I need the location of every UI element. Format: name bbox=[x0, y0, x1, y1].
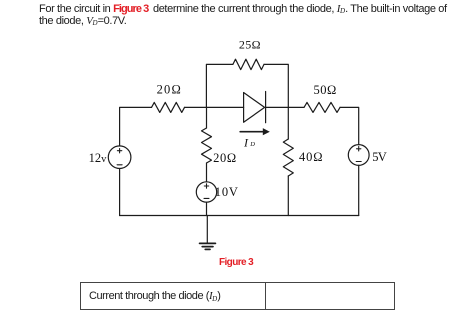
source 12V bbox=[108, 146, 131, 169]
resistor 40ohm bbox=[283, 139, 293, 176]
wire 12V bottom down bbox=[119, 169, 121, 216]
wire from 20ohm to diode anode through node A bbox=[185, 106, 244, 108]
wire 25ohm right down to node B bbox=[264, 64, 288, 107]
wire node A up to 25ohm branch left bbox=[206, 64, 233, 107]
current arrow ID bbox=[240, 128, 270, 135]
wire 50ohm right and down to 5V source bbox=[340, 107, 359, 144]
answer table bbox=[80, 282, 395, 310]
label 12V bbox=[89, 151, 108, 165]
figure caption bbox=[219, 257, 253, 268]
svg-text:D: D bbox=[249, 141, 255, 148]
resistor 50ohm bbox=[304, 102, 340, 112]
label 40ohm bbox=[299, 150, 323, 164]
label 20ohm (left resistor) bbox=[157, 83, 181, 97]
label 50ohm bbox=[314, 83, 337, 97]
wire from 12V source top up and right to R2 bbox=[120, 107, 152, 146]
svg-text:20Ω: 20Ω bbox=[157, 83, 181, 97]
label ID bbox=[243, 135, 255, 149]
resistor 20ohm vertical bbox=[202, 128, 212, 163]
resistor 20ohm horizontal (left) bbox=[152, 102, 185, 112]
label 20ohm (vertical resistor) bbox=[213, 151, 236, 165]
svg-text:40Ω: 40Ω bbox=[299, 150, 323, 164]
bottom rail wire bbox=[120, 215, 359, 217]
svg-text:25Ω: 25Ω bbox=[239, 37, 261, 51]
svg-text:20Ω: 20Ω bbox=[213, 151, 236, 165]
label 25ohm bbox=[239, 37, 261, 51]
svg-text:I: I bbox=[243, 135, 249, 149]
label 5V bbox=[372, 150, 387, 164]
resistor 25ohm top bbox=[233, 59, 264, 69]
source 5V bbox=[348, 145, 369, 166]
source 10V bbox=[196, 182, 216, 202]
svg-text:12v: 12v bbox=[89, 151, 108, 165]
svg-text:10V: 10V bbox=[215, 185, 238, 199]
wire 5V source bottom down bbox=[358, 165, 360, 215]
ground bbox=[200, 216, 216, 250]
wire 20ohm vertical to 10V source bbox=[206, 163, 208, 182]
wire node B down to 40ohm bbox=[287, 107, 289, 139]
wire node A down to 20ohm vertical bbox=[206, 107, 208, 128]
wire 10V bottom to ground rail bbox=[206, 202, 208, 215]
diode D1 bbox=[244, 92, 266, 123]
svg-text:50Ω: 50Ω bbox=[314, 83, 337, 97]
wire 40ohm bottom down bbox=[287, 176, 289, 216]
svg-text:5V: 5V bbox=[372, 150, 387, 164]
label 10V bbox=[215, 185, 238, 199]
problem statement text bbox=[39, 4, 459, 28]
wire diode cathode to 50ohm through node B bbox=[266, 106, 304, 108]
